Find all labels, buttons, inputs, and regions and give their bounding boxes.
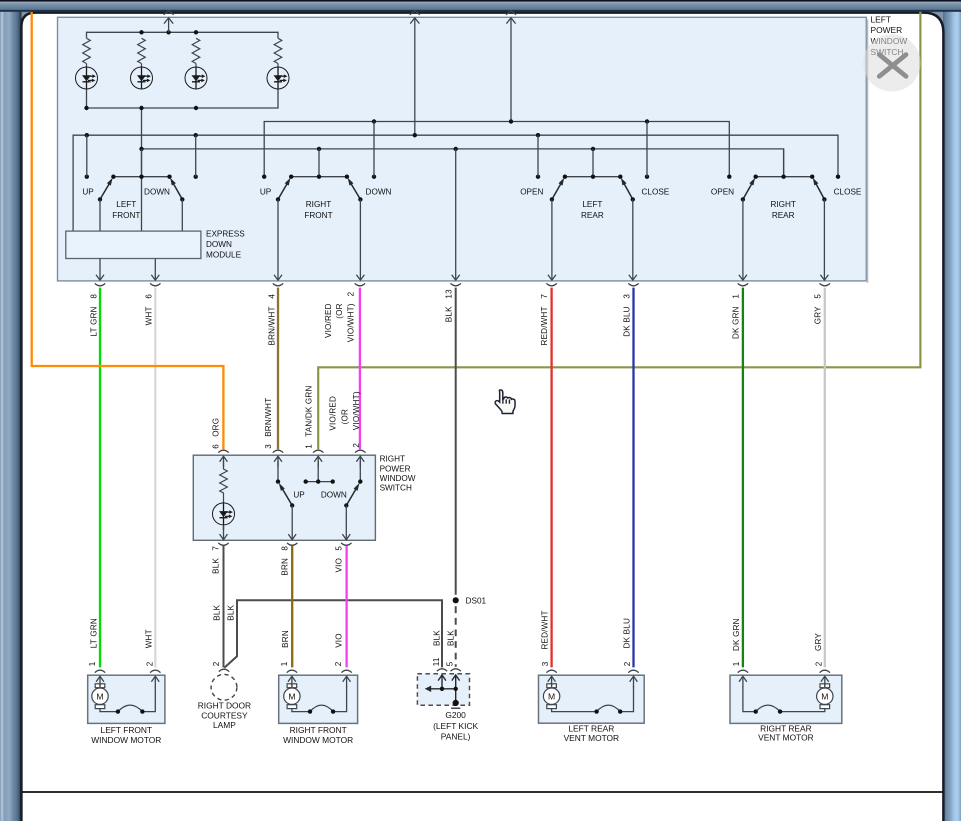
svg-text:LT GRN: LT GRN bbox=[90, 306, 99, 336]
svg-text:DOWN: DOWN bbox=[321, 490, 347, 499]
LED D1 bbox=[76, 67, 98, 89]
close button bbox=[863, 34, 920, 91]
svg-text:VIO: VIO bbox=[335, 558, 344, 573]
contact arc of left front window motor M1 bbox=[118, 705, 142, 712]
svg-text:DK BLU: DK BLU bbox=[623, 306, 632, 336]
svg-text:WINDOW MOTOR: WINDOW MOTOR bbox=[91, 735, 161, 745]
svg-text:BRN: BRN bbox=[281, 558, 290, 576]
resistor R1 bbox=[83, 38, 91, 67]
svg-text:LAMP: LAMP bbox=[213, 720, 236, 730]
wire VIO switch pin5 to right front motor bbox=[345, 546, 347, 668]
pin exit 13 from rail C bbox=[452, 149, 460, 280]
svg-text:8: 8 bbox=[89, 294, 98, 299]
svg-text:LEFT: LEFT bbox=[116, 200, 136, 209]
LED D2 bbox=[131, 67, 153, 89]
wire BRN/WHT bbox=[277, 288, 279, 450]
svg-text:BLK: BLK bbox=[212, 558, 221, 574]
svg-text:13: 13 bbox=[445, 289, 454, 299]
left rear vent motor M3 bbox=[539, 675, 645, 723]
wire VIO/RED bbox=[359, 288, 361, 450]
svg-text:WINDOW: WINDOW bbox=[380, 474, 416, 483]
wire: LED2 column to module bbox=[141, 108, 143, 231]
svg-text:LEFT: LEFT bbox=[582, 200, 602, 209]
pin exit 4 from RF UP pivot bbox=[274, 199, 282, 280]
svg-text:VIO/RED: VIO/RED bbox=[329, 396, 338, 431]
svg-text:(LEFT KICK: (LEFT KICK bbox=[433, 721, 478, 731]
svg-text:PANEL): PANEL) bbox=[441, 732, 471, 742]
wire BLK dashed DS01 to G200 pin 5 bbox=[455, 606, 457, 667]
svg-text:DS01: DS01 bbox=[466, 596, 487, 605]
LED D3 bbox=[185, 67, 207, 89]
svg-text:UP: UP bbox=[82, 187, 94, 196]
svg-text:CLOSE: CLOSE bbox=[834, 187, 862, 196]
right window scrollbar strip bbox=[943, 10, 961, 821]
svg-text:RIGHT: RIGHT bbox=[380, 455, 405, 464]
svg-text:BLK: BLK bbox=[445, 306, 454, 322]
switch UP in right switch bbox=[274, 456, 282, 467]
right front window motor M2 bbox=[279, 675, 358, 723]
svg-text:1: 1 bbox=[280, 661, 289, 666]
svg-text:POWER: POWER bbox=[871, 25, 903, 35]
svg-text:DOWN: DOWN bbox=[366, 187, 392, 196]
resistor R2 bbox=[138, 38, 146, 67]
switch group LEFT REAR bbox=[565, 149, 620, 177]
wire LT GRN bbox=[99, 288, 101, 668]
svg-text:2: 2 bbox=[212, 661, 221, 666]
motor M of left front window motor M1 bbox=[95, 684, 105, 688]
svg-text:8: 8 bbox=[281, 546, 290, 551]
contact arc of right rear vent motor M4 bbox=[756, 705, 780, 712]
resistor R4 bbox=[274, 38, 282, 67]
wire stationary contact drops bbox=[87, 122, 647, 177]
wire LF pivots to module bbox=[100, 199, 182, 231]
svg-text:VENT MOTOR: VENT MOTOR bbox=[564, 733, 620, 743]
svg-text:RIGHT: RIGHT bbox=[770, 200, 795, 209]
left power window switch box U1 bbox=[58, 17, 867, 281]
svg-text:2: 2 bbox=[623, 661, 632, 666]
svg-text:DOWN: DOWN bbox=[144, 187, 170, 196]
svg-text:VIO/WHT): VIO/WHT) bbox=[346, 303, 355, 342]
svg-text:POWER: POWER bbox=[380, 464, 411, 473]
svg-text:WINDOW MOTOR: WINDOW MOTOR bbox=[283, 735, 353, 745]
svg-text:TAN/DK GRN: TAN/DK GRN bbox=[305, 385, 314, 436]
wire BLK switch pin7 to courtesy lamp bbox=[223, 546, 225, 668]
svg-text:LEFT REAR: LEFT REAR bbox=[568, 723, 614, 733]
svg-text:6: 6 bbox=[212, 444, 221, 449]
wire RED/WHT bbox=[550, 288, 552, 668]
pin exit 1 from RR OPEN pivot bbox=[739, 199, 747, 280]
connector bumps big box bottom bbox=[95, 283, 830, 285]
right rear vent motor M4 bbox=[730, 675, 842, 723]
LED D4 bbox=[267, 67, 289, 89]
wire: rail A bbox=[264, 122, 729, 177]
junction dots LED rails bbox=[84, 30, 198, 110]
svg-text:RIGHT FRONT: RIGHT FRONT bbox=[290, 725, 347, 735]
svg-text:OPEN: OPEN bbox=[520, 187, 543, 196]
svg-text:7: 7 bbox=[540, 294, 549, 299]
wire BRN switch pin8 to right front motor bbox=[291, 546, 293, 668]
pin exit 5 from RR CLOSE pivot bbox=[820, 199, 828, 280]
svg-text:1: 1 bbox=[732, 661, 741, 666]
svg-text:EXPRESS: EXPRESS bbox=[206, 229, 245, 238]
svg-text:BRN/WHT: BRN/WHT bbox=[264, 398, 273, 437]
svg-text:WHT: WHT bbox=[145, 306, 154, 325]
node DS01 bbox=[453, 597, 459, 603]
svg-text:2: 2 bbox=[346, 291, 355, 296]
off-page connector arrow A3 bbox=[506, 11, 516, 122]
switch DOWN in right switch bbox=[314, 456, 322, 467]
wire DK BLU bbox=[632, 288, 634, 668]
motor M of right front window motor M2 bbox=[287, 684, 297, 688]
svg-text:5: 5 bbox=[335, 546, 344, 551]
wire GRY bbox=[824, 288, 826, 668]
svg-text:3: 3 bbox=[623, 294, 632, 299]
svg-text:2: 2 bbox=[352, 443, 361, 448]
svg-text:6: 6 bbox=[145, 294, 154, 299]
svg-text:RED/WHT: RED/WHT bbox=[540, 610, 549, 649]
switch group LEFT FRONT bbox=[113, 149, 169, 177]
svg-text:5: 5 bbox=[814, 294, 823, 299]
svg-text:COURTESY: COURTESY bbox=[201, 710, 248, 720]
bottom divider line bbox=[22, 791, 944, 793]
svg-text:SWITCH: SWITCH bbox=[380, 484, 412, 493]
off-page connector arrow A2 bbox=[410, 11, 420, 136]
svg-text:2: 2 bbox=[814, 661, 823, 666]
left window scrollbar strip bbox=[0, 10, 22, 821]
svg-text:BLK: BLK bbox=[447, 630, 456, 646]
svg-text:RIGHT: RIGHT bbox=[306, 200, 331, 209]
svg-text:2: 2 bbox=[334, 661, 343, 666]
svg-text:BLK: BLK bbox=[226, 604, 235, 620]
right door courtesy lamp E1 bbox=[219, 669, 229, 671]
svg-text:RED/WHT: RED/WHT bbox=[540, 306, 549, 345]
wire: rail C bbox=[142, 149, 784, 177]
svg-text:5: 5 bbox=[446, 661, 455, 666]
svg-text:VIO: VIO bbox=[335, 633, 344, 648]
svg-text:REAR: REAR bbox=[772, 211, 795, 220]
svg-text:11: 11 bbox=[432, 657, 441, 666]
svg-text:OPEN: OPEN bbox=[711, 187, 734, 196]
wire BLK pin13 to DS01 bbox=[455, 288, 457, 595]
svg-text:1: 1 bbox=[88, 661, 97, 666]
svg-text:BLK: BLK bbox=[213, 604, 222, 620]
svg-text:3: 3 bbox=[541, 661, 550, 666]
switch group RIGHT FRONT bbox=[291, 149, 347, 177]
pin exit 8 from module bbox=[96, 259, 104, 281]
svg-text:LT GRN: LT GRN bbox=[89, 618, 98, 648]
svg-text:FRONT: FRONT bbox=[112, 211, 140, 220]
corner notch background bbox=[0, 0, 961, 42]
wire: rail B bbox=[73, 135, 838, 231]
svg-text:VENT MOTOR: VENT MOTOR bbox=[758, 732, 814, 742]
svg-text:BRN/WHT: BRN/WHT bbox=[267, 306, 276, 345]
svg-text:BLK: BLK bbox=[433, 630, 442, 646]
pin exit 7 from LR OPEN pivot bbox=[548, 199, 556, 280]
svg-text:2: 2 bbox=[145, 661, 154, 666]
wire TAN/DK GRN loop from right switch pin 1 around right side bbox=[318, 12, 920, 450]
svg-text:DOWN: DOWN bbox=[206, 240, 232, 249]
wire ORG loop from top-left to right switch pin 6 bbox=[32, 12, 224, 449]
right power window switch box U2 bbox=[193, 455, 375, 540]
svg-text:1: 1 bbox=[732, 294, 741, 299]
svg-text:M: M bbox=[288, 691, 295, 701]
svg-text:ORG: ORG bbox=[212, 418, 221, 437]
svg-text:DK GRN: DK GRN bbox=[732, 618, 741, 651]
wire: LED bottom rail bbox=[87, 89, 279, 108]
svg-text:(OR: (OR bbox=[335, 303, 344, 318]
svg-text:LEFT FRONT: LEFT FRONT bbox=[101, 725, 153, 735]
top title bar bbox=[0, 0, 961, 2]
svg-text:UP: UP bbox=[293, 490, 305, 499]
pin exit 2 from RF DOWN pivot bbox=[356, 199, 364, 280]
motor M of left rear vent motor M3 bbox=[547, 684, 557, 688]
motor M of right rear vent motor M4 bbox=[820, 684, 830, 688]
svg-text:FRONT: FRONT bbox=[304, 211, 332, 220]
svg-text:3: 3 bbox=[264, 444, 273, 449]
off-page connector arrow A1 bbox=[164, 11, 174, 33]
svg-text:VIO/RED: VIO/RED bbox=[324, 303, 333, 338]
svg-text:M: M bbox=[96, 691, 103, 701]
LED D5 in right switch bbox=[213, 503, 235, 530]
svg-text:BRN: BRN bbox=[281, 630, 290, 648]
pin bumps switch bottom bbox=[218, 543, 228, 545]
svg-text:MODULE: MODULE bbox=[206, 251, 242, 260]
resistor R5 in right switch bbox=[220, 456, 228, 467]
wire DK GRN bbox=[742, 288, 744, 668]
ground splice G200 bbox=[437, 669, 447, 671]
svg-text:(OR: (OR bbox=[341, 409, 350, 424]
svg-text:WHT: WHT bbox=[144, 629, 153, 648]
svg-text:REAR: REAR bbox=[581, 211, 604, 220]
resistor R3 bbox=[192, 38, 200, 67]
wire: LED top rail bbox=[87, 32, 279, 38]
pin exit 6 from module bbox=[151, 259, 159, 281]
svg-text:GRY: GRY bbox=[814, 306, 823, 324]
express down module bbox=[66, 231, 201, 258]
svg-text:RIGHT DOOR: RIGHT DOOR bbox=[198, 701, 251, 711]
svg-text:M: M bbox=[548, 691, 555, 701]
contact arc of right front window motor M2 bbox=[310, 705, 333, 712]
svg-text:1: 1 bbox=[305, 444, 314, 449]
svg-text:VIO/WHT): VIO/WHT) bbox=[352, 391, 361, 430]
contact arc of left rear vent motor M3 bbox=[597, 705, 621, 712]
switch group RIGHT REAR bbox=[756, 149, 813, 177]
left front window motor M1 bbox=[88, 675, 165, 723]
mouse cursor (hand pointer) bbox=[495, 390, 515, 414]
svg-text:GRY: GRY bbox=[814, 633, 823, 651]
wire WHT bbox=[154, 288, 156, 668]
pin bumps switch top bbox=[218, 450, 228, 452]
wire BLK branch to G200 pin 11 bbox=[224, 600, 442, 668]
svg-text:G200: G200 bbox=[445, 710, 466, 720]
svg-text:UP: UP bbox=[260, 187, 272, 196]
svg-text:M: M bbox=[821, 691, 828, 701]
svg-text:LEFT: LEFT bbox=[871, 14, 891, 24]
svg-text:DK BLU: DK BLU bbox=[622, 618, 631, 648]
svg-text:7: 7 bbox=[212, 546, 221, 551]
junction dots bus rails bbox=[85, 119, 650, 151]
svg-text:DK GRN: DK GRN bbox=[732, 306, 741, 339]
svg-text:CLOSE: CLOSE bbox=[642, 187, 670, 196]
svg-text:4: 4 bbox=[267, 294, 276, 299]
pin exit 3 from LR CLOSE pivot bbox=[629, 199, 637, 280]
